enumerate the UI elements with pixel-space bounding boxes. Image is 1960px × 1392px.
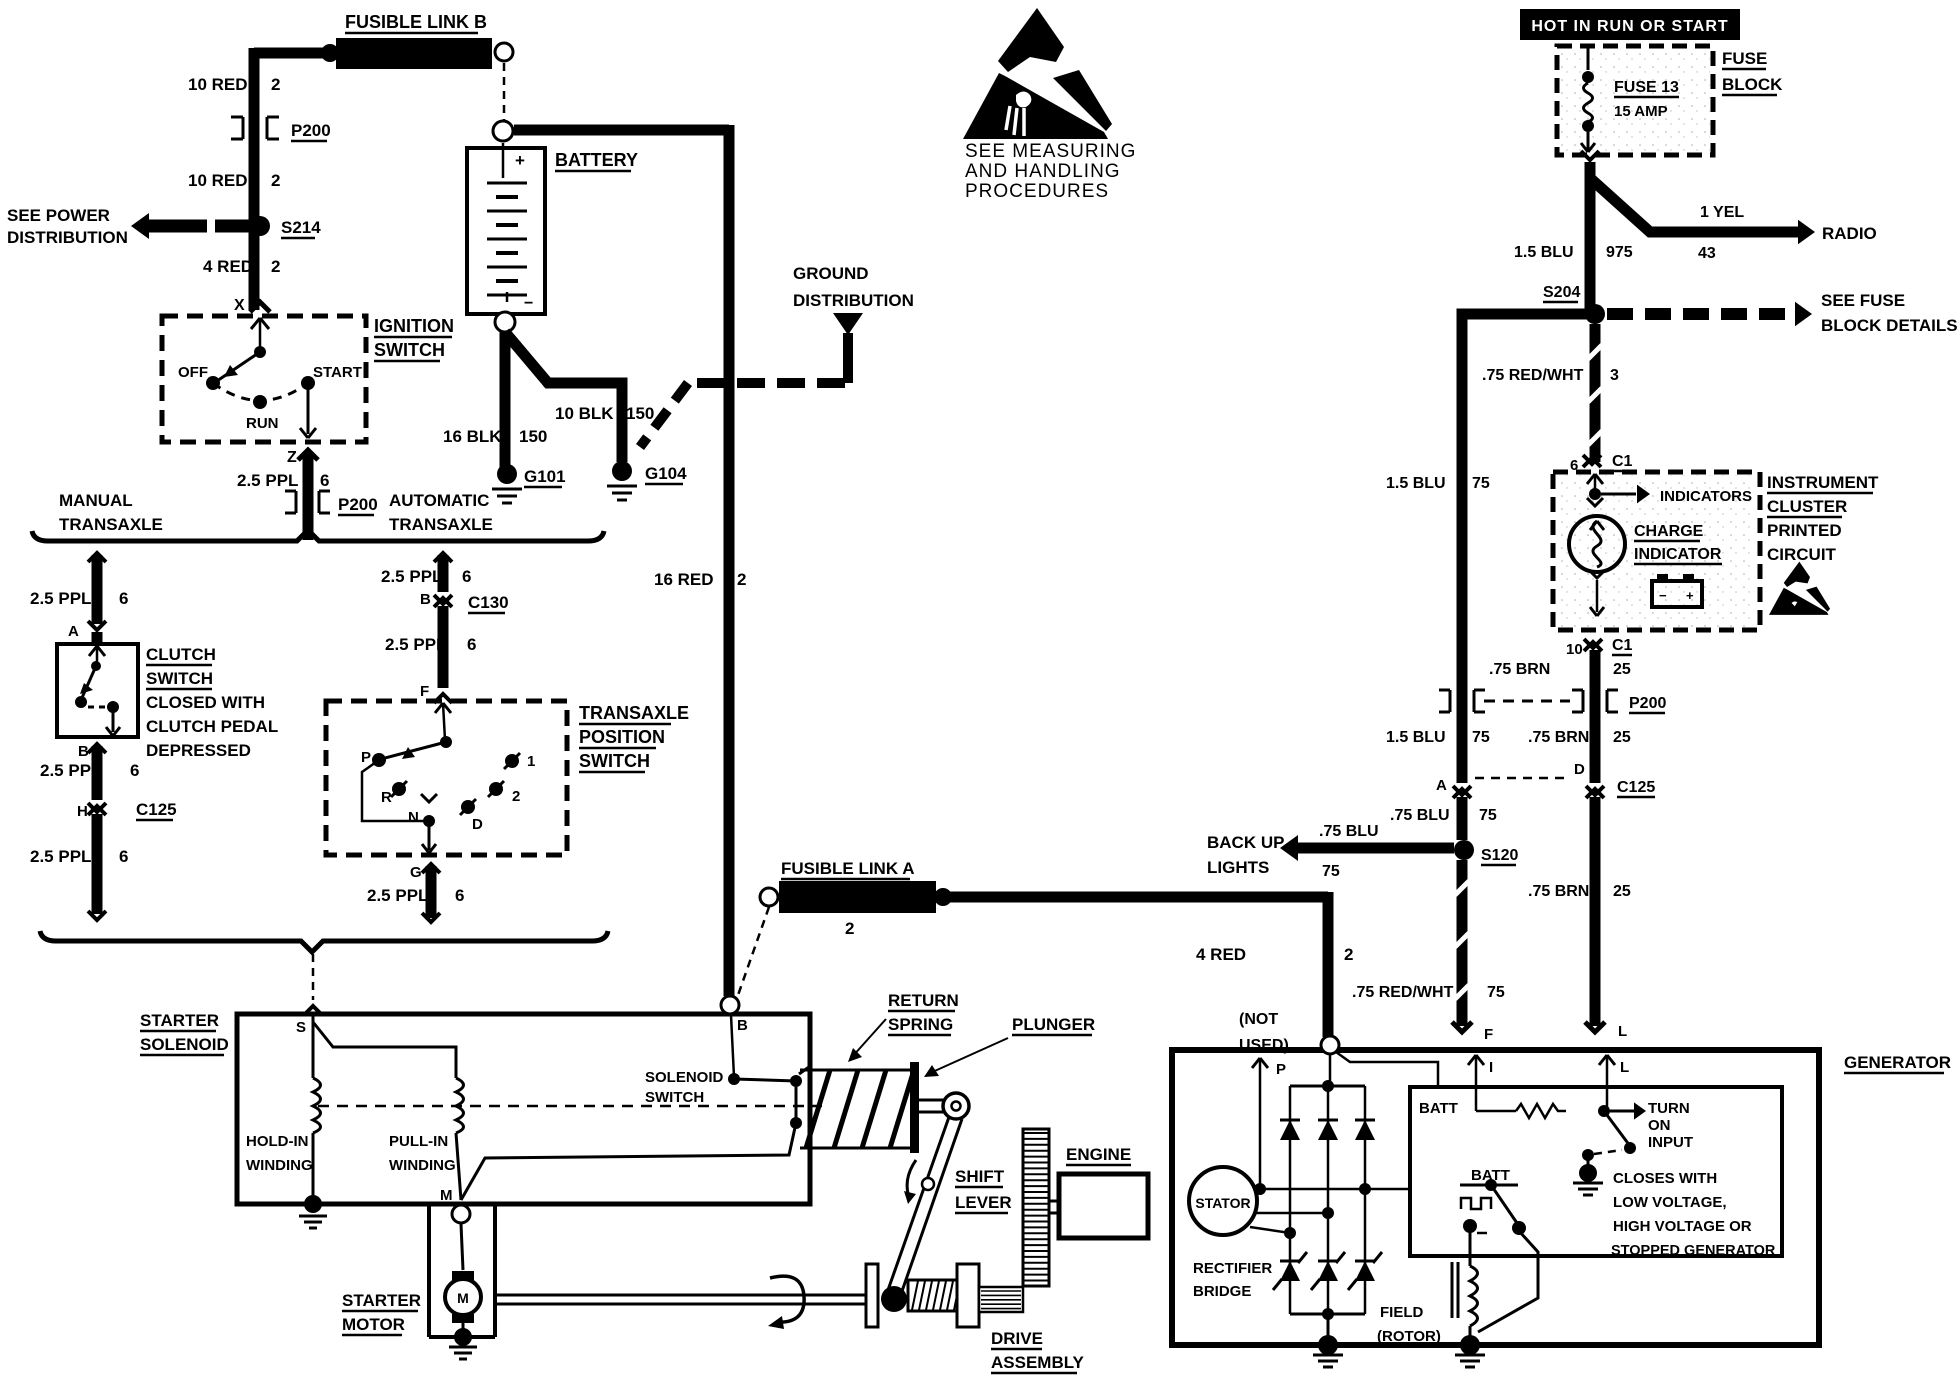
svg-text:S: S bbox=[296, 1019, 306, 1036]
svg-text:−: − bbox=[1659, 588, 1667, 603]
svg-text:STARTER: STARTER bbox=[342, 1291, 421, 1310]
svg-text:2.5 PPL: 2.5 PPL bbox=[381, 567, 442, 586]
svg-text:(NOT: (NOT bbox=[1239, 1011, 1278, 1028]
svg-text:B: B bbox=[737, 1017, 748, 1034]
svg-text:75: 75 bbox=[1322, 863, 1340, 880]
svg-text:D: D bbox=[1574, 761, 1585, 778]
svg-text:150: 150 bbox=[519, 427, 547, 446]
svg-text:2.5 PPL: 2.5 PPL bbox=[30, 847, 91, 866]
svg-text:10 BLK: 10 BLK bbox=[555, 404, 614, 423]
svg-text:WINDING: WINDING bbox=[246, 1157, 313, 1174]
svg-text:SEE MEASURING: SEE MEASURING bbox=[965, 141, 1136, 162]
svg-text:75: 75 bbox=[1472, 475, 1490, 492]
svg-text:PROCEDURES: PROCEDURES bbox=[965, 181, 1109, 202]
svg-text:1.5 BLU: 1.5 BLU bbox=[1386, 475, 1446, 492]
svg-text:START: START bbox=[313, 364, 362, 381]
svg-text:FUSE: FUSE bbox=[1722, 49, 1767, 68]
svg-text:LEVER: LEVER bbox=[955, 1193, 1012, 1212]
svg-text:6: 6 bbox=[467, 635, 476, 654]
svg-text:BACK UP: BACK UP bbox=[1207, 833, 1284, 852]
svg-text:X: X bbox=[234, 297, 245, 314]
svg-text:STOPPED GENERATOR: STOPPED GENERATOR bbox=[1611, 1243, 1776, 1259]
svg-text:DEPRESSED: DEPRESSED bbox=[146, 741, 251, 760]
svg-text:75: 75 bbox=[1479, 807, 1497, 824]
svg-text:C130: C130 bbox=[468, 593, 509, 612]
svg-text:DISTRIBUTION: DISTRIBUTION bbox=[7, 228, 128, 247]
svg-text:16 BLK: 16 BLK bbox=[443, 427, 502, 446]
svg-text:BATT: BATT bbox=[1419, 1100, 1458, 1117]
svg-text:FUSIBLE LINK B: FUSIBLE LINK B bbox=[345, 12, 487, 32]
svg-text:CIRCUIT: CIRCUIT bbox=[1767, 545, 1837, 564]
svg-text:MANUAL: MANUAL bbox=[59, 491, 133, 510]
svg-text:HIGH VOLTAGE OR: HIGH VOLTAGE OR bbox=[1613, 1218, 1752, 1235]
svg-text:RUN: RUN bbox=[246, 415, 279, 432]
svg-text:LOW VOLTAGE,: LOW VOLTAGE, bbox=[1613, 1194, 1727, 1211]
svg-text:PULL-IN: PULL-IN bbox=[389, 1133, 448, 1150]
svg-text:H: H bbox=[77, 803, 88, 820]
svg-text:G104: G104 bbox=[645, 464, 687, 483]
svg-text:RETURN: RETURN bbox=[888, 991, 959, 1010]
svg-text:TRANSAXLE: TRANSAXLE bbox=[59, 515, 163, 534]
svg-text:TRANSAXLE: TRANSAXLE bbox=[579, 703, 689, 723]
svg-text:SWITCH: SWITCH bbox=[374, 340, 445, 360]
svg-text:.75 BRN: .75 BRN bbox=[1489, 661, 1550, 678]
svg-text:SOLENOID: SOLENOID bbox=[140, 1035, 229, 1054]
svg-text:ENGINE: ENGINE bbox=[1066, 1145, 1131, 1164]
svg-text:FIELD: FIELD bbox=[1380, 1304, 1423, 1321]
svg-text:6: 6 bbox=[462, 567, 471, 586]
svg-text:150: 150 bbox=[626, 404, 654, 423]
svg-text:15 AMP: 15 AMP bbox=[1614, 103, 1668, 120]
svg-text:+: + bbox=[515, 151, 525, 170]
svg-text:INDICATORS: INDICATORS bbox=[1660, 488, 1752, 505]
svg-text:INPUT: INPUT bbox=[1648, 1134, 1693, 1151]
svg-text:TRANSAXLE: TRANSAXLE bbox=[389, 515, 493, 534]
svg-text:+: + bbox=[1686, 588, 1694, 603]
svg-text:C1: C1 bbox=[1612, 453, 1633, 470]
svg-text:10: 10 bbox=[1566, 641, 1583, 658]
svg-text:975: 975 bbox=[1606, 244, 1633, 261]
svg-text:RECTIFIER: RECTIFIER bbox=[1193, 1260, 1272, 1277]
svg-text:TURN: TURN bbox=[1648, 1100, 1690, 1117]
svg-text:2: 2 bbox=[737, 570, 746, 589]
svg-text:43: 43 bbox=[1698, 245, 1716, 262]
svg-text:L: L bbox=[1618, 1023, 1627, 1040]
svg-text:POSITION: POSITION bbox=[579, 727, 665, 747]
svg-text:−: − bbox=[524, 295, 533, 312]
svg-text:25: 25 bbox=[1613, 729, 1631, 746]
svg-text:RADIO: RADIO bbox=[1822, 224, 1877, 243]
svg-text:CHARGE: CHARGE bbox=[1634, 523, 1704, 540]
svg-text:L: L bbox=[1620, 1059, 1629, 1076]
svg-text:6: 6 bbox=[455, 886, 464, 905]
svg-text:3: 3 bbox=[1610, 367, 1619, 384]
svg-text:4 RED: 4 RED bbox=[203, 257, 253, 276]
svg-text:2: 2 bbox=[845, 919, 854, 938]
svg-text:INDICATOR: INDICATOR bbox=[1634, 546, 1722, 563]
svg-text:G: G bbox=[410, 864, 422, 881]
svg-text:25: 25 bbox=[1613, 661, 1631, 678]
svg-text:6: 6 bbox=[320, 471, 329, 490]
svg-text:IGNITION: IGNITION bbox=[374, 316, 454, 336]
svg-text:75: 75 bbox=[1472, 729, 1490, 746]
svg-text:4 RED: 4 RED bbox=[1196, 945, 1246, 964]
svg-text:1.5 BLU: 1.5 BLU bbox=[1514, 244, 1574, 261]
svg-text:N: N bbox=[408, 809, 419, 826]
svg-text:LIGHTS: LIGHTS bbox=[1207, 858, 1269, 877]
svg-text:PLUNGER: PLUNGER bbox=[1012, 1015, 1095, 1034]
svg-text:C125: C125 bbox=[1617, 779, 1655, 796]
svg-text:DISTRIBUTION: DISTRIBUTION bbox=[793, 291, 914, 310]
svg-text:CLOSES WITH: CLOSES WITH bbox=[1613, 1170, 1717, 1187]
svg-text:G101: G101 bbox=[524, 467, 566, 486]
svg-text:M: M bbox=[457, 1290, 469, 1306]
svg-text:SOLENOID: SOLENOID bbox=[645, 1069, 724, 1086]
svg-text:B: B bbox=[420, 591, 431, 608]
svg-text:MOTOR: MOTOR bbox=[342, 1315, 405, 1334]
svg-text:M: M bbox=[440, 1187, 453, 1204]
svg-text:CLOSED WITH: CLOSED WITH bbox=[146, 693, 265, 712]
svg-text:F: F bbox=[1484, 1026, 1493, 1043]
svg-text:2.5 PPL: 2.5 PPL bbox=[237, 471, 298, 490]
svg-text:2.5 PPL: 2.5 PPL bbox=[40, 761, 101, 780]
svg-text:AUTOMATIC: AUTOMATIC bbox=[389, 491, 489, 510]
svg-text:2: 2 bbox=[512, 788, 520, 805]
svg-text:.75 BLU: .75 BLU bbox=[1319, 823, 1379, 840]
svg-text:SEE POWER: SEE POWER bbox=[7, 206, 110, 225]
svg-text:ON: ON bbox=[1648, 1117, 1671, 1134]
svg-text:HOT IN RUN OR START: HOT IN RUN OR START bbox=[1531, 18, 1728, 35]
svg-text:(ROTOR): (ROTOR) bbox=[1377, 1328, 1441, 1345]
svg-text:ASSEMBLY: ASSEMBLY bbox=[991, 1353, 1085, 1372]
svg-text:2: 2 bbox=[271, 257, 280, 276]
svg-text:SWITCH: SWITCH bbox=[146, 669, 213, 688]
svg-text:BLOCK: BLOCK bbox=[1722, 75, 1783, 94]
svg-text:P200: P200 bbox=[338, 495, 378, 514]
svg-text:P200: P200 bbox=[291, 121, 331, 140]
svg-text:AND HANDLING: AND HANDLING bbox=[965, 161, 1121, 182]
svg-text:6: 6 bbox=[119, 589, 128, 608]
svg-text:6: 6 bbox=[130, 761, 139, 780]
svg-text:P: P bbox=[1276, 1061, 1286, 1078]
svg-text:BATTERY: BATTERY bbox=[555, 150, 638, 170]
svg-text:CLUSTER: CLUSTER bbox=[1767, 497, 1847, 516]
svg-text:D: D bbox=[472, 816, 483, 833]
svg-text:WINDING: WINDING bbox=[389, 1157, 456, 1174]
svg-text:INSTRUMENT: INSTRUMENT bbox=[1767, 473, 1879, 492]
svg-text:SHIFT: SHIFT bbox=[955, 1167, 1005, 1186]
svg-text:10 RED: 10 RED bbox=[188, 171, 248, 190]
svg-text:STARTER: STARTER bbox=[140, 1011, 219, 1030]
svg-text:A: A bbox=[1436, 777, 1447, 794]
svg-text:FUSE 13: FUSE 13 bbox=[1614, 79, 1679, 96]
svg-text:2: 2 bbox=[271, 75, 280, 94]
svg-text:1: 1 bbox=[527, 753, 535, 770]
svg-text:SWITCH: SWITCH bbox=[645, 1089, 704, 1106]
svg-text:P200: P200 bbox=[1629, 695, 1666, 712]
svg-text:2.5 PPL: 2.5 PPL bbox=[385, 635, 446, 654]
svg-text:P: P bbox=[361, 749, 371, 766]
svg-text:A: A bbox=[68, 623, 79, 640]
svg-text:.75 BRN: .75 BRN bbox=[1528, 883, 1589, 900]
svg-text:SEE FUSE: SEE FUSE bbox=[1821, 291, 1905, 310]
svg-text:.75 BLU: .75 BLU bbox=[1390, 807, 1450, 824]
svg-text:.75 RED/WHT: .75 RED/WHT bbox=[1482, 367, 1584, 384]
svg-text:DRIVE: DRIVE bbox=[991, 1329, 1043, 1348]
svg-text:2.5 PPL: 2.5 PPL bbox=[367, 886, 428, 905]
svg-text:6: 6 bbox=[119, 847, 128, 866]
svg-text:USED): USED) bbox=[1239, 1037, 1289, 1054]
svg-text:Z: Z bbox=[287, 449, 297, 466]
svg-text:.75 RED/WHT: .75 RED/WHT bbox=[1352, 984, 1454, 1001]
svg-text:C125: C125 bbox=[136, 800, 177, 819]
svg-text:CLUTCH: CLUTCH bbox=[146, 645, 216, 664]
svg-text:S214: S214 bbox=[281, 218, 321, 237]
svg-text:1.5 BLU: 1.5 BLU bbox=[1386, 729, 1446, 746]
svg-text:I: I bbox=[1489, 1059, 1493, 1076]
svg-text:R: R bbox=[381, 789, 392, 806]
svg-text:SPRING: SPRING bbox=[888, 1015, 953, 1034]
svg-text:.75 BRN: .75 BRN bbox=[1528, 729, 1589, 746]
svg-text:2.5 PPL: 2.5 PPL bbox=[30, 589, 91, 608]
svg-text:25: 25 bbox=[1613, 883, 1631, 900]
svg-text:F: F bbox=[420, 683, 429, 700]
svg-text:HOLD-IN: HOLD-IN bbox=[246, 1133, 309, 1150]
svg-text:OFF: OFF bbox=[178, 364, 208, 381]
svg-text:SWITCH: SWITCH bbox=[579, 751, 650, 771]
svg-text:75: 75 bbox=[1487, 984, 1505, 1001]
svg-text:S120: S120 bbox=[1481, 847, 1518, 864]
svg-text:2: 2 bbox=[1344, 945, 1353, 964]
svg-text:GROUND: GROUND bbox=[793, 264, 869, 283]
svg-text:1 YEL: 1 YEL bbox=[1700, 204, 1744, 221]
svg-text:S204: S204 bbox=[1543, 284, 1580, 301]
svg-text:10 RED: 10 RED bbox=[188, 75, 248, 94]
svg-text:BRIDGE: BRIDGE bbox=[1193, 1283, 1251, 1300]
svg-text:2: 2 bbox=[271, 171, 280, 190]
svg-text:C1: C1 bbox=[1612, 637, 1633, 654]
svg-text:PRINTED: PRINTED bbox=[1767, 521, 1842, 540]
svg-text:GENERATOR: GENERATOR bbox=[1844, 1053, 1951, 1072]
svg-text:CLUTCH PEDAL: CLUTCH PEDAL bbox=[146, 717, 278, 736]
svg-text:BLOCK DETAILS: BLOCK DETAILS bbox=[1821, 316, 1958, 335]
svg-text:FUSIBLE LINK A: FUSIBLE LINK A bbox=[781, 859, 914, 878]
svg-text:16 RED: 16 RED bbox=[654, 570, 714, 589]
svg-text:STATOR: STATOR bbox=[1195, 1195, 1250, 1211]
